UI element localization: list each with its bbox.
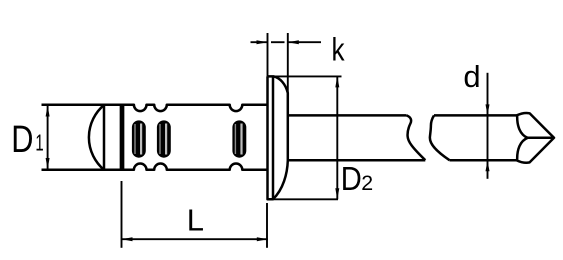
slot oval 3 highlights [234,124,236,154]
svg-text:2: 2 [361,171,373,195]
arrowhead D1 bottom [46,158,50,169]
dimension d line [487,73,489,179]
dimension L extension right [266,203,268,248]
arrowhead D2 bottom [335,188,339,199]
arrowhead D2 top [335,76,339,87]
arrowhead L right [257,237,268,241]
svg-text:k: k [332,32,345,68]
slot oval 2 highlights [159,124,161,154]
mandrel tip center line [528,137,554,140]
body setting line (thick) [120,105,125,170]
svg-text:D: D [11,119,33,161]
slot oval 2 [157,120,171,157]
dimension L extension left [121,181,123,248]
arrowhead L left [122,237,133,241]
mandrel head vertical line [103,105,106,170]
svg-text:1: 1 [35,130,43,156]
dimension k line middle dash [271,41,285,43]
dimension k extension right [287,33,289,93]
mandrel head dome arc [89,105,104,170]
slot oval 1 highlights [134,124,136,154]
rivet body top edge with notches [42,105,268,111]
dimension D2 extension top [275,75,342,77]
mandrel tip concave back curves [517,116,528,160]
stem right segment with tip outline [434,113,554,163]
arrowhead D1 top [46,106,50,117]
stem top edge left segment [288,114,407,117]
dimension k line right tail [288,41,321,43]
stem break line right [430,115,450,160]
flange inner face line [272,76,275,199]
rivet body bottom edge with notches [42,164,268,170]
slot oval 3 [232,120,246,157]
arrowhead d bottom [486,160,490,171]
svg-text:L: L [187,203,204,238]
svg-text:D: D [341,160,362,197]
flange outline [268,76,288,199]
stem break line left [407,115,426,160]
svg-text:d: d [463,59,480,94]
dimension L line [122,238,268,240]
dimension D2 line [336,76,338,199]
label D1 [11,119,43,161]
dimension k line left tail [251,41,268,43]
slot oval 1 [132,120,146,157]
arrowhead k right [288,40,299,44]
arrowhead d top [486,104,490,115]
label D2 [341,160,373,197]
stem bottom edge left segment [288,159,426,162]
dimension k extension left [267,33,269,76]
dimension D1 line [47,106,49,170]
dimension D2 extension bottom [273,198,338,200]
arrowhead k left [257,40,268,44]
